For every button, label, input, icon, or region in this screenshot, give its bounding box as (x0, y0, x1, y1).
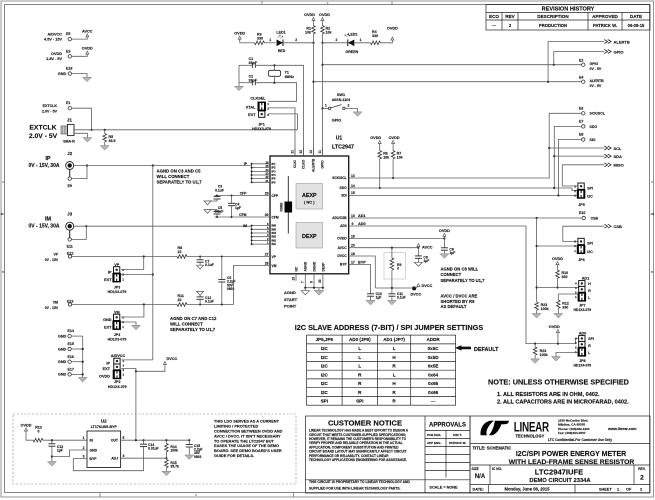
turret E8 SDI (579, 133, 595, 142)
svg-text:EXT: EXT (248, 113, 256, 117)
svg-text:RSNS: RSNS (280, 203, 284, 212)
svg-text:J3: J3 (67, 212, 72, 217)
svg-text:E11: E11 (67, 245, 73, 249)
svg-text:E1: E1 (66, 101, 70, 105)
svg-text:JP7: JP7 (579, 304, 585, 308)
resistor R8 22 (177, 246, 187, 258)
svg-text:0x5D: 0x5D (428, 355, 440, 360)
svg-text:SPI: SPI (356, 399, 363, 404)
svg-text:GPIO: GPIO (614, 49, 624, 54)
svg-text:AVCC: AVCC (422, 246, 433, 250)
wire SDA to offpage (554, 155, 604, 157)
power arrow OVDD (JP8) (549, 325, 560, 344)
Linear Technology logo (480, 420, 549, 438)
svg-text:SCL: SCL (614, 146, 623, 151)
svg-text:10k: 10k (305, 30, 311, 34)
svg-text:4: 4 (123, 454, 125, 458)
ground symbol E18 (83, 77, 92, 82)
capacitor C14 0.01uF (140, 439, 159, 451)
svg-text:100k: 100k (170, 449, 178, 453)
svg-text:0x66: 0x66 (428, 390, 439, 395)
svg-text:OF: OF (626, 488, 632, 492)
regulator U2 LT1761 (83, 419, 125, 468)
svg-text:SPI: SPI (587, 242, 593, 246)
wire U2 GND to C13 gnd (52, 450, 87, 457)
svg-text:GPIO: GPIO (590, 62, 599, 66)
svg-text:33pF: 33pF (249, 61, 258, 65)
svg-text:HD1X4-079: HD1X4-079 (108, 385, 127, 389)
svg-text:ADJ: ADJ (111, 457, 118, 461)
note LDO purpose (214, 419, 283, 458)
svg-text:DGND: DGND (312, 261, 316, 271)
svg-text:DEXP: DEXP (302, 234, 317, 240)
svg-text:L: L (393, 372, 396, 377)
svg-text:IP: IP (45, 156, 51, 162)
turret E10 CSB (579, 211, 598, 220)
resistor R12 330 (557, 300, 569, 314)
svg-text:DVCC: DVCC (422, 284, 433, 288)
svg-text:CSB: CSB (614, 224, 623, 229)
svg-text:I2C: I2C (321, 372, 329, 377)
svg-text:AEXP: AEXP (302, 193, 317, 199)
wire JP2 to U2 OUT (135, 371, 137, 440)
svg-text:AD0: AD0 (340, 224, 347, 228)
svg-text:1: 1 (617, 488, 619, 492)
title block part cells (472, 465, 646, 485)
svg-text:GND: GND (103, 318, 112, 322)
svg-text:TECHNOLOGY: TECHNOLOGY (516, 433, 545, 438)
svg-text:0.1uF: 0.1uF (397, 296, 406, 300)
svg-text:JP3: JP3 (114, 285, 120, 289)
resistor R11 22 (177, 294, 187, 306)
svg-text:1µF: 1µF (376, 296, 382, 300)
U1 right pin numbers (351, 174, 355, 264)
offpage arrow SDA (604, 154, 622, 159)
U2 section dashed box (13, 414, 296, 484)
svg-text:49.9: 49.9 (109, 139, 116, 143)
svg-text:330: 330 (562, 305, 568, 309)
svg-text:WITH LEAD-FRAME SENSE RESISTOR: WITH LEAD-FRAME SENSE RESISTOR (509, 459, 635, 466)
ground symbol R23 (532, 314, 541, 319)
turret E2 GPIO (579, 59, 602, 71)
ground symbol R15 (162, 471, 171, 476)
wire SDI row (354, 194, 578, 196)
svg-text:CFP: CFP (272, 194, 279, 198)
svg-text:NC: NC (294, 266, 298, 271)
svg-text:28: 28 (265, 261, 269, 265)
svg-text:12: 12 (309, 150, 313, 154)
svg-text:GND: GND (58, 373, 67, 377)
resistor R10 330 (552, 257, 568, 289)
capacitor C7 0.1uF (197, 257, 214, 268)
svg-text:IM5: IM5 (272, 227, 277, 231)
svg-text:JP8: JP8 (579, 359, 585, 363)
U1 bottom pin names (294, 261, 325, 271)
svg-text:AGND ON C7 AND C12: AGND ON C7 AND C12 (170, 316, 217, 321)
svg-text:PCB DES.: PCB DES. (427, 433, 441, 437)
svg-text:0.1uF: 0.1uF (205, 263, 214, 267)
svg-text:23: 23 (266, 172, 269, 176)
op-amp U1 LTC2947 body (270, 136, 354, 274)
resistor R1 10k pullup (304, 13, 315, 43)
svg-text:VM: VM (272, 264, 277, 268)
svg-text:2: 2 (295, 38, 297, 42)
wire CLKO net (275, 65, 304, 156)
svg-text:APPROVALS: APPROVALS (429, 423, 466, 429)
svg-text:2: 2 (83, 446, 85, 450)
offpage arrow GPIO (604, 49, 623, 54)
svg-text:E10: E10 (579, 211, 585, 215)
svg-text:MISO: MISO (614, 163, 624, 168)
wire VM net right (187, 266, 270, 306)
svg-text:2: 2 (347, 104, 349, 108)
svg-text:AGND ON C3 AND C5: AGND ON C3 AND C5 (157, 168, 202, 173)
note AGND C3 C5 (157, 168, 203, 184)
svg-text:E16: E16 (68, 355, 74, 359)
svg-text:E14: E14 (68, 329, 74, 333)
svg-text:2.0V - 5V: 2.0V - 5V (42, 109, 58, 113)
wire R13 to U2 IN (43, 439, 87, 441)
svg-text:GND: GND (58, 334, 67, 338)
svg-text:0x65: 0x65 (428, 381, 439, 386)
svg-text:L: L (358, 364, 361, 369)
connector J2 IP jack (29, 151, 74, 177)
svg-text:10k: 10k (383, 156, 389, 160)
svg-text:EXT: EXT (104, 278, 112, 282)
svg-text:AD0: AD0 (579, 332, 587, 336)
svg-text:IP1: IP1 (272, 162, 277, 166)
svg-text:IP6: IP6 (272, 180, 277, 184)
svg-text:OVDD: OVDD (319, 13, 330, 17)
wire GPIO vertical (321, 43, 323, 156)
svg-text:IP: IP (108, 271, 112, 275)
resistor RSNS internal (280, 176, 293, 234)
U1 right pin stubs (349, 178, 354, 265)
svg-text:AD1: AD1 (358, 214, 366, 218)
capacitor C1 33pF (239, 57, 275, 68)
svg-text:E7: E7 (579, 119, 583, 123)
ground AGND C5 (204, 210, 211, 214)
svg-text:SEPARATELY TO U1,7: SEPARATELY TO U1,7 (441, 278, 486, 283)
crystal Y1 4MHz (269, 64, 295, 84)
resistor R14 100k (165, 440, 178, 459)
svg-text:IP3: IP3 (272, 170, 277, 174)
svg-text:AGND: AGND (304, 261, 308, 271)
svg-text:1µF: 1µF (235, 206, 241, 210)
svg-text:ADDR: ADDR (426, 337, 440, 342)
svg-text:AS DEFAULT: AS DEFAULT (441, 304, 467, 309)
svg-text:IP: IP (106, 361, 110, 365)
svg-text:AD1 (JP7): AD1 (JP7) (383, 337, 405, 342)
turret E7 SDO (579, 119, 597, 128)
svg-text:0: 0 (397, 267, 399, 271)
svg-text:1µF: 1µF (57, 449, 63, 453)
svg-text:1.8V - 5V: 1.8V - 5V (46, 57, 62, 61)
wire AD0 net (354, 226, 579, 345)
svg-text:25: 25 (266, 164, 269, 168)
ground symbol SW1 (353, 112, 362, 117)
svg-text:SDI: SDI (590, 138, 596, 142)
ground symbol JP8 (552, 357, 561, 362)
svg-text:HD1X4-079: HD1X4-079 (573, 308, 591, 312)
U1 top pin stubs (295, 148, 323, 157)
svg-text:PATRICK W.: PATRICK W. (449, 441, 466, 445)
svg-text:LTC Confidential-For Customer: LTC Confidential-For Customer Use Only (548, 438, 612, 442)
wire OVDD pin16 row (354, 237, 446, 239)
svg-text:E6: E6 (579, 106, 583, 110)
svg-text:AD0 (JP8): AD0 (JP8) (349, 337, 371, 342)
wire SCL to offpage (549, 147, 604, 149)
svg-text:18: 18 (351, 252, 355, 256)
wire J1 shield to ground (74, 133, 87, 137)
svg-text:IM1: IM1 (272, 242, 277, 246)
svg-text:U2: U2 (101, 419, 107, 424)
svg-text:0.01uF: 0.01uF (148, 447, 159, 451)
svg-text:JP5: JP5 (578, 203, 584, 207)
wire AD1 row to JP7 (537, 287, 579, 289)
svg-text:SEPARATELY TO U1,7: SEPARATELY TO U1,7 (157, 179, 203, 184)
svg-text:SEPARATELY TO U1,7: SEPARATELY TO U1,7 (170, 327, 216, 332)
ground symbol C15 (185, 455, 194, 460)
svg-text:0.1uF: 0.1uF (215, 188, 224, 192)
svg-text:I2C: I2C (321, 381, 329, 386)
wire E1 to EXTCLK net (72, 108, 93, 131)
svg-text:START: START (284, 297, 298, 302)
ground symbol J1 (83, 138, 92, 143)
power arrow OVDD (C6) (439, 229, 450, 239)
svg-text:1: 1 (325, 104, 327, 108)
svg-text:I2C: I2C (321, 346, 329, 351)
svg-text:HD1X4-079: HD1X4-079 (573, 364, 591, 368)
wire C1 to C2 left leg (238, 65, 240, 86)
wire CSB net vertical (536, 218, 538, 302)
svg-text:( NC ): ( NC ) (304, 200, 315, 205)
svg-text:7: 7 (301, 281, 305, 283)
U1 top pin names (293, 158, 325, 172)
svg-text:AGND ON C8 WILL: AGND ON C8 WILL (441, 267, 479, 272)
wire ALERTB row (314, 81, 582, 83)
capacitor C8 1uF (415, 248, 429, 263)
svg-text:0V - 15V: 0V - 15V (45, 306, 59, 310)
svg-text:4MHz: 4MHz (285, 75, 295, 79)
turret E3 OVDD (46, 49, 71, 61)
jumper JP3 (104, 263, 126, 294)
wire DVCC node row (375, 287, 414, 289)
svg-text:EXTCLK: EXTCLK (43, 104, 58, 108)
turret E13 VM (45, 299, 74, 310)
svg-text:0: 0 (38, 429, 40, 433)
svg-text:I2C: I2C (587, 195, 593, 199)
svg-text:1µF: 1µF (449, 251, 455, 255)
svg-text:17: 17 (351, 260, 355, 264)
svg-text:AVCC: AVCC (338, 246, 348, 250)
LED1 RED (276, 31, 285, 53)
svg-text:AVCC / DVCC ARE: AVCC / DVCC ARE (441, 294, 478, 299)
wire R3 to LED1 (265, 38, 276, 43)
wire ALERTB to offpage (548, 42, 604, 82)
svg-text:10k: 10k (397, 156, 403, 160)
svg-text:B: B (2, 270, 4, 274)
svg-text:OVDD: OVDD (387, 26, 398, 30)
svg-text:21: 21 (266, 179, 269, 183)
svg-text:WILL CONNECT: WILL CONNECT (170, 322, 203, 327)
I2C slave address table title (295, 323, 484, 332)
wire GPIO row (323, 64, 582, 66)
wire JP7 pin2 to R12 (558, 294, 577, 300)
connector J1 SMA-R (29, 117, 75, 143)
wire CSB to offpage (563, 226, 605, 241)
turret E18 GND (58, 66, 73, 76)
wire DVCC pin18 (354, 256, 376, 288)
svg-text:IM6: IM6 (272, 224, 277, 228)
ground symbol JP4 (132, 325, 141, 330)
svg-text:CSB: CSB (591, 216, 599, 220)
turret E4 ALERTB (579, 76, 604, 88)
svg-text:CLKO: CLKO (302, 159, 306, 169)
svg-text:3: 3 (83, 454, 85, 458)
wire E3 to OVDD arrow (72, 54, 88, 56)
node DVCC testpoint (411, 284, 433, 297)
svg-text:5: 5 (123, 436, 125, 440)
svg-text:OVDD: OVDD (234, 32, 245, 36)
svg-text:POINT: POINT (284, 304, 297, 309)
svg-text:OVDD: OVDD (439, 229, 450, 233)
svg-text:BYP: BYP (90, 457, 98, 461)
jumper JP5 (574, 183, 593, 207)
svg-text:OVDD: OVDD (99, 374, 110, 378)
wire GND turret bus (71, 336, 82, 377)
U1 pin 27 VP (265, 252, 277, 259)
turret E5 A/DVCC (44, 32, 71, 42)
svg-text:GPIO: GPIO (321, 160, 325, 169)
resistor R9 0 (384, 248, 405, 288)
wire EXTCLK net (74, 129, 297, 131)
power arrow OVDD (LED1) (234, 32, 245, 43)
svg-text:16: 16 (351, 234, 355, 238)
svg-text:AGND: AGND (284, 290, 296, 295)
svg-text:SPI: SPI (587, 186, 593, 190)
capacitor C12 0.1uF (197, 291, 214, 304)
wire AGND tie (304, 287, 324, 289)
svg-text:ECO: ECO (489, 14, 499, 19)
svg-text:SCK/SCL: SCK/SCL (590, 112, 606, 116)
jumper JP1 CLKSEL (246, 97, 271, 132)
power arrow OVDD (82, 47, 93, 55)
svg-text:SDO: SDO (590, 125, 598, 129)
svg-text:CONNECT: CONNECT (441, 272, 462, 277)
wire MISO from JP5 pin3 (562, 165, 604, 186)
svg-text:27: 27 (265, 252, 269, 256)
svg-text:1: 1 (83, 436, 85, 440)
wire LED1 to ALERTB node (283, 38, 315, 44)
svg-text:SCALE = NONE: SCALE = NONE (429, 486, 458, 490)
svg-text:SDI: SDI (341, 194, 347, 198)
svg-text:PATRICK W.: PATRICK W. (593, 23, 617, 28)
svg-text:100k: 100k (540, 353, 548, 357)
svg-text:DATE: DATE (630, 14, 642, 19)
svg-text:—: — (431, 399, 436, 404)
svg-text:NOTE: UNLESS OTHERWISE SPECIFI: NOTE: UNLESS OTHERWISE SPECIFIED (488, 377, 629, 386)
U1 left IP pin numbers and names (266, 160, 277, 184)
svg-text:JP2: JP2 (114, 380, 120, 384)
svg-text:SCK/SCL: SCK/SCL (332, 176, 346, 180)
svg-text:APP ENG.: APP ENG. (427, 441, 441, 445)
resistor R13 0 (33, 425, 43, 442)
ground symbol R24 (531, 359, 540, 364)
approvals table (425, 423, 470, 490)
turret E16 GND (58, 355, 74, 364)
wire E5 to AVCC arrow (72, 37, 88, 39)
svg-text:22: 22 (178, 250, 182, 254)
svg-text:SHEET: SHEET (599, 488, 612, 492)
svg-text:THIS CIRCUIT IS PROPRIETARY TO: THIS CIRCUIT IS PROPRIETARY TO LINEAR TE… (309, 480, 410, 484)
svg-text:SIZE: SIZE (472, 467, 480, 471)
wire GPIO node to LED2 (323, 38, 348, 43)
svg-text:13: 13 (351, 174, 355, 178)
wire SW1 to ground (345, 108, 358, 112)
svg-text:9: 9 (352, 222, 354, 226)
svg-text:DVCC: DVCC (167, 357, 178, 361)
ground symbol C10 (366, 300, 375, 305)
svg-text:SPI: SPI (321, 399, 328, 404)
svg-text:0x64: 0x64 (428, 372, 439, 377)
svg-text:DEXP: DEXP (321, 262, 325, 272)
resistor R24 100k (533, 344, 547, 359)
U1 pin 28 VM (265, 261, 277, 268)
U1 right pin names (332, 176, 347, 267)
svg-text:IP4: IP4 (272, 173, 277, 177)
AGND START POINT label (284, 290, 298, 309)
svg-text:OVDD: OVDD (51, 52, 62, 56)
ground symbol GND bus (78, 378, 87, 383)
turret E11 (67, 238, 73, 249)
svg-text:29: 29 (265, 191, 269, 195)
jumper JP7 AD1 (573, 277, 591, 313)
ground symbol R5 (100, 146, 109, 151)
ground AGND start point (301, 288, 309, 295)
ground AGND C8 (414, 262, 422, 266)
svg-text:CLKI: CLKI (293, 160, 297, 168)
svg-text:SUPPLIED FOR USE WITH LINEAR T: SUPPLIED FOR USE WITH LINEAR TECHNOLOGY … (309, 487, 401, 491)
svg-text:1µF: 1µF (423, 259, 429, 263)
jumper JP4 (103, 310, 126, 341)
svg-text:VM: VM (53, 300, 58, 304)
wire AVCC pin20 row (354, 247, 420, 249)
svg-text:BYP: BYP (340, 263, 348, 267)
svg-text:I2C SLAVE ADDRESS (7-BIT) / SP: I2C SLAVE ADDRESS (7-BIT) / SPI JUMPER S… (295, 323, 484, 332)
svg-text:HD1X3-079: HD1X3-079 (252, 127, 271, 131)
capacitor C15 2.2uF (186, 440, 203, 459)
svg-text:E5: E5 (66, 32, 70, 36)
svg-text:E4: E4 (579, 76, 583, 80)
ground symbol XTAL (235, 86, 244, 91)
node AD0 label (358, 222, 366, 226)
title block date row (473, 485, 643, 494)
switch SW1 A6SN-1104 (323, 93, 351, 122)
svg-text:19: 19 (291, 277, 295, 281)
node AD1 label (358, 214, 366, 218)
wire VP net right (187, 256, 270, 258)
title block (470, 416, 650, 493)
svg-text:CUSTOMER NOTICE: CUSTOMER NOTICE (328, 419, 402, 428)
power arrow AVCC (82, 29, 93, 37)
svg-text:OVDD: OVDD (82, 47, 93, 51)
svg-text:11: 11 (318, 150, 322, 154)
node BYP label (358, 260, 366, 264)
svg-text:0.1uF: 0.1uF (205, 300, 214, 304)
U1 bottom pin stubs (296, 274, 323, 288)
resistor R4 330 (371, 30, 381, 45)
